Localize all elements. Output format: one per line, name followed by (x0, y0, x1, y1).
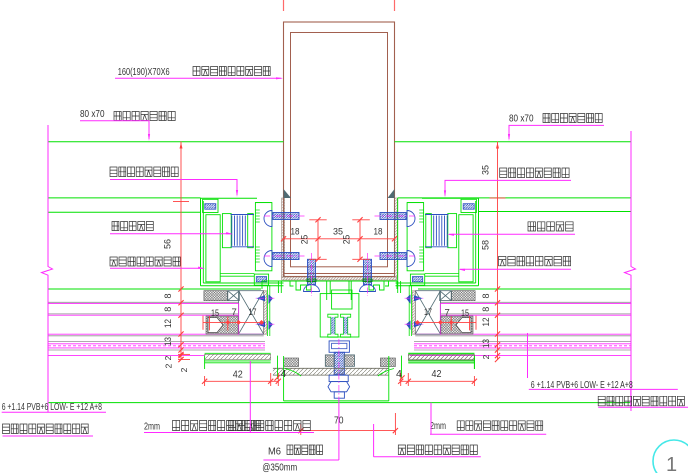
bottom long frame line (48, 402, 631, 404)
laminated glass band right (414, 341, 631, 343)
glazing wedge triangle left (284, 189, 292, 198)
svg-text:42: 42 (233, 369, 243, 381)
svg-text:17: 17 (424, 307, 432, 318)
svg-text:8: 8 (163, 307, 173, 312)
svg-text:15: 15 (211, 308, 219, 319)
vent sash head line right (398, 197, 631, 199)
small dim marks near trays (274, 375, 279, 380)
label: stainless steel friction stay (right) (528, 222, 573, 231)
svg-text:7: 7 (232, 307, 237, 318)
serrated clamp plates (325, 355, 334, 366)
bolt centerline (338, 339, 340, 399)
svg-text:42: 42 (432, 368, 442, 380)
laminated glass band left (48, 341, 265, 343)
insulating glass unit left - upper pane lines (48, 301, 239, 303)
svg-text:8: 8 (481, 293, 491, 298)
glass clamp clip left (285, 369, 301, 377)
dim 42 right (401, 380, 475, 382)
glass clamp clip right (378, 369, 394, 377)
anchor bolt below column @x=367.5 (364, 259, 372, 284)
steel square-tube mullion column 160(190)x70x6 - centerline marks (283, 0, 285, 11)
insulating glass unit right - upper pane lines (441, 303, 632, 305)
svg-text:M6: M6 (268, 447, 281, 458)
label: aluminium vent sash frame (left) (110, 167, 178, 177)
right glass edge line with break symbol (625, 131, 636, 411)
M6 bolt end (334, 392, 344, 398)
beam top plate hatch (282, 277, 397, 280)
EPDM block right (380, 358, 395, 367)
vent sash assembly right (mirror) (373, 198, 479, 369)
svg-text:15: 15 (461, 308, 469, 319)
beam cover cap profile (262, 280, 397, 282)
svg-text:12: 12 (481, 318, 491, 327)
M6 bolt head and shaft (329, 341, 349, 352)
pressure plate hatch band (273, 368, 389, 375)
svg-text:8: 8 (481, 307, 491, 312)
I-shaped spigot right (341, 314, 351, 337)
small 2/2 dim marks left glass edge (178, 353, 190, 355)
svg-text:8: 8 (163, 293, 173, 298)
svg-text:1: 1 (666, 454, 677, 473)
vent sash head line left (48, 197, 201, 199)
label: stainless steel friction stay (left) (112, 222, 153, 231)
svg-text:13: 13 (163, 337, 173, 346)
svg-text:12: 12 (163, 319, 173, 328)
label: laminated insulated tempered glass (right) (598, 396, 684, 406)
anchor bolt below column @x=311.5 (308, 259, 316, 284)
M6 hex nut (328, 382, 350, 392)
svg-text:2: 2 (481, 354, 491, 359)
detail bubble 1 (653, 440, 688, 473)
column outer wall (284, 22, 395, 277)
M6 washer (329, 375, 348, 381)
glass air-space line left (48, 333, 264, 335)
glass air-space line right (415, 333, 631, 335)
gasket strip at column left face (282, 198, 285, 277)
central spigot channel walls (329, 281, 331, 294)
svg-text:160(190)X70X6: 160(190)X70X6 (118, 66, 170, 78)
aluminium hidden-frame beam top edge left (48, 141, 284, 143)
svg-text:80 x70: 80 x70 (80, 108, 105, 120)
svg-text:18: 18 (291, 227, 300, 237)
glass lower edge line left (48, 355, 204, 357)
svg-text:2mm: 2mm (430, 421, 446, 432)
label: laminated insulated tempered glass (left) (3, 424, 89, 434)
vent sash assembly left (opening window frame, friction stay, bolts) (201, 198, 307, 369)
aluminium hidden-frame beam top edge right (395, 141, 632, 143)
svg-text:17: 17 (249, 307, 257, 318)
dim extension line right x=497.5 (497, 142, 499, 361)
svg-text:6 +1.14 PVB+6 LOW- E +12 A+8: 6 +1.14 PVB+6 LOW- E +12 A+8 (2, 402, 103, 413)
label: aluminium vent sash sill (right) with 35 (500, 168, 569, 178)
dim extension line left x=181 (180, 142, 182, 361)
svg-text:4: 4 (281, 368, 287, 380)
svg-text:25: 25 (342, 235, 352, 245)
glass lower edge line right (410, 355, 631, 357)
label: aluminium vent sash bottom (left) (110, 257, 180, 266)
svg-text:2: 2 (164, 363, 174, 368)
svg-text:2mm: 2mm (144, 422, 160, 433)
svg-text:35: 35 (481, 165, 491, 175)
glazing wedge triangle right (388, 189, 395, 198)
I-shaped spigot left (328, 314, 338, 337)
label: aluminium vent sash bottom (right) (499, 257, 571, 266)
svg-text:58: 58 (481, 240, 491, 250)
svg-text:13: 13 (481, 339, 491, 348)
svg-text:56: 56 (163, 239, 173, 249)
dim 70 bottom (301, 430, 396, 432)
EPDM block left (284, 358, 299, 367)
dim 42 left (205, 380, 279, 382)
label: aluminium exposed frame glass pressure block (398, 445, 477, 455)
svg-text:@350mm: @350mm (262, 463, 297, 473)
central connector box (320, 294, 359, 337)
left glass edge line with break symbol (42, 125, 53, 412)
svg-text:7: 7 (445, 308, 450, 319)
column inner wall (291, 33, 388, 267)
svg-text:2: 2 (179, 367, 189, 372)
bottom tray (284, 400, 389, 402)
vent sash bottom line left (48, 288, 261, 290)
svg-text:18: 18 (374, 227, 383, 237)
svg-text:2: 2 (163, 355, 173, 360)
svg-text:25: 25 (300, 235, 310, 245)
glass setting plate right (sloped hatch band) (408, 352, 474, 354)
column bolt dims 18/35/18 and 25/25 (284, 238, 395, 240)
vent sash bottom line right (418, 288, 631, 290)
svg-text:80 x70: 80 x70 (509, 113, 534, 125)
gasket strip at column right face (394, 198, 397, 277)
